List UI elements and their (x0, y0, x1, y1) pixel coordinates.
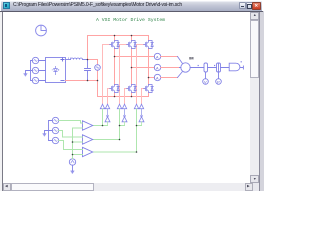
bottom DC bus wire (98, 96, 149, 98)
carrier distribution wire (73, 128, 83, 159)
diode bridge rectifier BD1 (46, 58, 66, 83)
control wire group3 (93, 109, 142, 152)
ammeter A1 (154, 53, 160, 59)
plus label (61, 58, 64, 61)
torque sensor T1 (217, 63, 221, 72)
ground (carrier) (71, 165, 75, 173)
DC voltage sensor loop wires (88, 60, 98, 81)
minus label (61, 80, 64, 82)
top DC bus wire (88, 35, 149, 37)
phase C output wire (149, 77, 155, 79)
shaft wire (190, 67, 229, 69)
on-off controller G3b (139, 104, 143, 109)
label dots (68, 58, 71, 59)
ground (control side) (43, 131, 49, 137)
svg-text:A: A (156, 66, 159, 70)
svg-text:P: P (217, 79, 220, 84)
comparator U1 (83, 121, 93, 130)
mechanical load ML1 (229, 61, 243, 71)
control wire group1 (93, 109, 108, 126)
IGBT Q5 (127, 85, 137, 93)
junction dots (72, 35, 150, 156)
svg-text:A: A (156, 55, 159, 59)
gate wire top leg1 (103, 45, 110, 104)
phase B output wire (132, 67, 155, 69)
heading text (96, 17, 165, 23)
control wire group2 (93, 109, 125, 140)
shaft marker dots (198, 65, 216, 66)
gate wire bottom leg3 (142, 89, 144, 104)
gate wire bottom leg2 (125, 89, 127, 104)
svg-text:A: A (156, 76, 159, 80)
NOT gate N2 (122, 109, 127, 126)
speed probe V1 (203, 79, 209, 85)
wire Sb to U2 (59, 131, 83, 138)
motor terminal stubs (178, 57, 183, 78)
wire Sa to U1 (59, 121, 83, 124)
IGBT Q2 (127, 41, 137, 49)
gate wire bottom leg1 (108, 89, 110, 104)
comparator U2 (83, 135, 93, 144)
on-off controller G3a (134, 104, 138, 109)
ammeter A2 (154, 64, 160, 70)
NOT gate N1 (105, 109, 110, 126)
voltage source VC (32, 77, 38, 83)
wire Sc to U3 (59, 141, 83, 150)
svg-text:V: V (204, 79, 207, 84)
IGBT Q4 (110, 85, 120, 93)
control source bus wire (49, 121, 53, 141)
voltage source VB (32, 67, 38, 73)
wires sources to bridge (39, 61, 46, 81)
IGBT Q3 (144, 41, 154, 49)
induction motor IM (181, 63, 190, 72)
speed probe lead (205, 72, 207, 79)
torque probe P1 (216, 79, 222, 85)
sine source Sa (52, 117, 58, 123)
on-off controller G1b (105, 104, 109, 109)
gate wire top leg2 (120, 45, 127, 104)
sine source Sc (52, 137, 58, 143)
speed sensor W1 (204, 63, 208, 72)
wires ammeters to motor (161, 57, 180, 78)
IGBT Q1 (110, 41, 120, 49)
carrier source Vtri (69, 159, 75, 165)
NOT gate N3 (139, 109, 144, 126)
simulation clock icon (36, 25, 47, 36)
inverter leg wires (115, 36, 149, 97)
DC voltage sensor VDC (95, 65, 101, 71)
svg-text:A VSI Motor Drive System: A VSI Motor Drive System (96, 17, 165, 23)
voltage source VA (32, 57, 38, 63)
IGBT Q6 (144, 85, 154, 93)
sine source Sb (52, 127, 58, 133)
on-off controller G1a (100, 104, 104, 109)
comparator U3 (83, 147, 93, 156)
on-off controller G2a (117, 104, 121, 109)
DC+ riser wire (87, 36, 89, 60)
svg-text:IM: IM (189, 55, 194, 60)
source common bus wire (31, 61, 33, 81)
on-off controller G2b (122, 104, 126, 109)
torque probe lead (218, 72, 220, 79)
ground (source side) (24, 71, 31, 77)
ammeter A3 (154, 74, 160, 80)
capacitor C1 (85, 60, 91, 81)
phase A output wire (115, 56, 155, 58)
DC- riser wire (97, 81, 99, 97)
inductor L1 (66, 58, 88, 60)
DC- bus wire (66, 80, 98, 82)
gate wire top leg3 (137, 45, 144, 104)
